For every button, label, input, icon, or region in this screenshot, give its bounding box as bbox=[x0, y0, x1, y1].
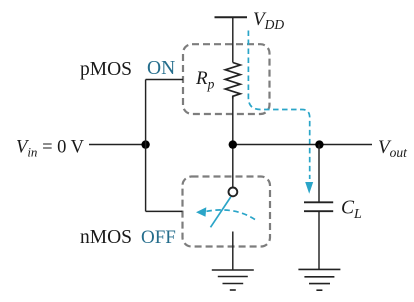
svg-text:VDD: VDD bbox=[253, 9, 284, 32]
svg-text:pMOS: pMOS bbox=[80, 59, 132, 80]
svg-text:nMOS: nMOS bbox=[80, 227, 132, 248]
svg-text:Vin = 0 V: Vin = 0 V bbox=[16, 137, 85, 159]
svg-text:Vout: Vout bbox=[378, 137, 408, 160]
svg-text:OFF: OFF bbox=[141, 227, 176, 248]
svg-text:CL: CL bbox=[341, 198, 362, 223]
svg-text:Rp: Rp bbox=[195, 68, 215, 92]
svg-text:ON: ON bbox=[147, 58, 175, 79]
